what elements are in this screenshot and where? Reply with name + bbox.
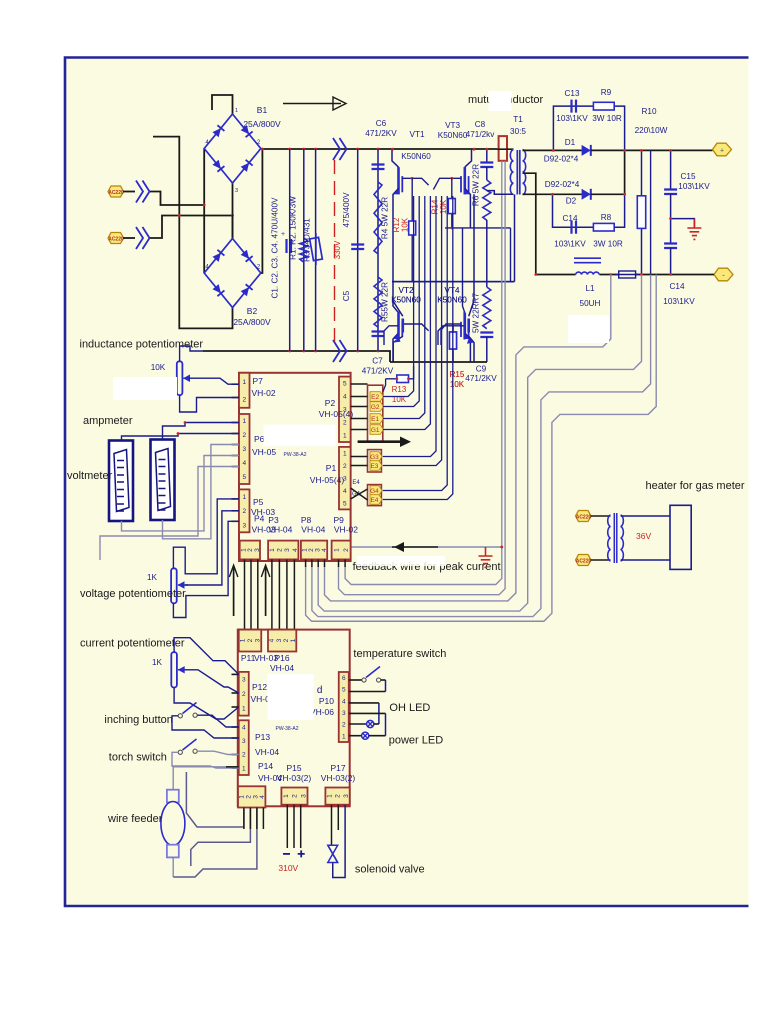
wire C5 column xyxy=(357,149,359,351)
svg-text:temperature switch: temperature switch xyxy=(353,648,446,660)
wire mid rail xyxy=(392,194,515,281)
connector P14 bottom xyxy=(238,786,265,807)
voltmeter display xyxy=(151,440,175,521)
wire secondary top xyxy=(523,149,582,151)
svg-text:103\1KV: 103\1KV xyxy=(663,297,695,306)
svg-text:d: d xyxy=(317,685,323,696)
white cover board2 xyxy=(268,674,314,720)
svg-text:K50N60: K50N60 xyxy=(401,152,431,161)
wire bottom rail left xyxy=(203,351,390,362)
connector P17 bottom xyxy=(325,788,349,805)
svg-text:30:5: 30:5 xyxy=(510,127,526,136)
wire VT1 collector xyxy=(392,149,399,167)
svg-text:220\10W: 220\10W xyxy=(635,126,668,135)
svg-text:3: 3 xyxy=(242,446,246,453)
svg-text:VH-04: VH-04 xyxy=(270,663,294,673)
transistor VT1 xyxy=(397,167,400,194)
svg-text:C5: C5 xyxy=(342,290,351,301)
pad group G4 E4 xyxy=(368,485,382,506)
wire VT3 gate xyxy=(433,178,461,189)
svg-text:ampmeter: ampmeter xyxy=(83,415,133,427)
svg-text:R4 5W 22R: R4 5W 22R xyxy=(381,197,390,239)
svg-text:E3: E3 xyxy=(370,463,378,470)
resistor R9 xyxy=(593,102,614,110)
svg-text:1: 1 xyxy=(242,418,246,425)
wire heater prim xyxy=(591,515,611,517)
wire sensor feedback loop A xyxy=(345,161,502,585)
svg-text:power LED: power LED xyxy=(389,735,443,747)
wire ac1 xyxy=(123,191,135,193)
heater box xyxy=(670,505,691,569)
svg-text:VH-03(2): VH-03(2) xyxy=(277,773,312,783)
wire P2 pin stubs xyxy=(351,383,368,385)
wire heater sec xyxy=(621,515,670,517)
wire sense column xyxy=(650,150,652,274)
connector P10 xyxy=(339,672,349,742)
svg-text:G4: G4 xyxy=(370,488,379,495)
heater transformer core xyxy=(614,513,617,563)
snubber loop C14 R8 xyxy=(553,194,625,227)
chevron top rail xyxy=(333,138,347,160)
wire R1R2 column xyxy=(303,149,305,351)
wire P14 pin stubs xyxy=(243,808,245,830)
resistor R6 xyxy=(486,167,488,287)
ampmeter display xyxy=(109,441,133,522)
wire VT3 collector xyxy=(465,149,472,167)
resistor R15 xyxy=(452,324,454,362)
wire feeder harness 2 xyxy=(191,808,251,866)
wire gate drive common xyxy=(445,228,511,282)
wire left pin stubs board1 xyxy=(232,383,240,385)
svg-text:C7: C7 xyxy=(372,357,383,366)
svg-text:2: 2 xyxy=(242,752,246,759)
svg-text:B2: B2 xyxy=(247,306,258,316)
wire ind pot top xyxy=(180,346,203,361)
svg-text:G1: G1 xyxy=(371,427,380,434)
capacitor C7 xyxy=(372,332,385,337)
svg-text:3: 3 xyxy=(235,188,238,194)
resistor R12 xyxy=(411,178,413,281)
svg-text:3: 3 xyxy=(284,548,291,552)
wire temp switch out xyxy=(381,679,386,681)
wire D1 out xyxy=(591,149,713,151)
wire VT3 emitter xyxy=(465,188,471,228)
wire P1 cross to G4 E4 xyxy=(351,488,368,500)
svg-text:VH-04: VH-04 xyxy=(301,525,325,535)
svg-text:4: 4 xyxy=(343,393,347,400)
svg-text:VH-04: VH-04 xyxy=(255,747,279,757)
svg-text:3: 3 xyxy=(242,522,246,529)
wire ac2 xyxy=(123,237,135,239)
svg-text:310V: 310V xyxy=(278,863,298,873)
svg-text:P6: P6 xyxy=(254,434,265,444)
wire VT4 collector xyxy=(463,228,465,313)
resistor R15 xyxy=(452,326,454,362)
wire left vertical bus xyxy=(153,137,233,329)
resistor R8 xyxy=(593,223,614,231)
wire gate-emitter bundle xyxy=(383,196,414,397)
svg-text:-: - xyxy=(722,271,725,280)
svg-text:current potentiometer: current potentiometer xyxy=(80,638,185,650)
wire VT4 gate xyxy=(441,324,461,345)
transformer T1 primary xyxy=(510,150,513,195)
svg-text:1K: 1K xyxy=(147,573,158,582)
resistor R13 xyxy=(386,366,414,379)
svg-text:1: 1 xyxy=(242,494,246,501)
snubber loop C13 R9 xyxy=(553,106,624,150)
svg-text:T1: T1 xyxy=(513,115,523,124)
wire P3 pins down xyxy=(271,559,273,629)
svg-text:B1: B1 xyxy=(257,105,268,115)
svg-text:C13: C13 xyxy=(564,89,579,98)
svg-text:2: 2 xyxy=(283,638,290,642)
wire VT2 collector xyxy=(393,301,403,317)
voltage potentiometer xyxy=(171,568,177,603)
shunt xyxy=(619,271,636,278)
wire sensor feedback loop B xyxy=(339,161,506,595)
svg-text:475/400V: 475/400V xyxy=(342,192,351,228)
wire VT4 emitter xyxy=(469,336,474,362)
svg-text:2: 2 xyxy=(277,548,284,552)
heater transformer secondary xyxy=(621,515,624,561)
bridge rectifier B2 xyxy=(204,239,261,308)
svg-text:2: 2 xyxy=(242,691,246,698)
svg-text:P16: P16 xyxy=(274,653,289,663)
svg-text:AC220: AC220 xyxy=(108,190,124,196)
svg-text:2: 2 xyxy=(335,794,342,798)
svg-text:10K: 10K xyxy=(151,363,166,372)
connector output minus xyxy=(714,268,733,281)
ground symbol (red) xyxy=(687,219,701,239)
wire feeder harness 1 xyxy=(186,772,244,827)
svg-text:1: 1 xyxy=(242,706,246,713)
svg-text:1: 1 xyxy=(240,638,247,642)
white cover near inductance pot xyxy=(113,377,177,400)
svg-text:10K: 10K xyxy=(401,217,410,232)
diode D1 xyxy=(582,145,591,156)
connector P15 bottom xyxy=(281,788,307,805)
svg-text:VH-02: VH-02 xyxy=(252,388,276,398)
svg-text:2: 2 xyxy=(343,463,347,470)
svg-text:1: 1 xyxy=(269,548,276,552)
wire C6 column xyxy=(377,149,379,351)
white cover feedback text xyxy=(357,556,445,566)
svg-text:E2: E2 xyxy=(371,394,379,401)
svg-text:D92-02*4: D92-02*4 xyxy=(544,155,579,164)
torch switch xyxy=(178,750,182,754)
wire vpot pin1 xyxy=(173,499,239,574)
svg-text:G2: G2 xyxy=(371,404,380,411)
svg-text:AC220: AC220 xyxy=(576,514,592,520)
wire VT1 emitter xyxy=(393,188,399,312)
connector AC220 input 1 xyxy=(108,186,124,197)
svg-text:inching button: inching button xyxy=(104,714,172,726)
red dashed 330V line xyxy=(334,160,336,348)
capacitor C13 xyxy=(572,100,577,113)
svg-text:VH-03(2): VH-03(2) xyxy=(321,773,356,783)
capacitor C14a xyxy=(572,221,577,234)
wire B1-B2 vertical xyxy=(232,183,234,239)
transformer T1 core xyxy=(517,150,520,195)
svg-text:D92-02*4: D92-02*4 xyxy=(545,180,580,189)
wire cpot bottom xyxy=(174,688,239,720)
svg-text:1: 1 xyxy=(283,794,290,798)
svg-text:3: 3 xyxy=(255,638,262,642)
wire E2 to R13 xyxy=(383,379,386,392)
capacitor C1-C4 xyxy=(287,239,292,253)
svg-text:P10: P10 xyxy=(319,696,334,706)
svg-text:VH-02: VH-02 xyxy=(334,525,358,535)
svg-text:3: 3 xyxy=(242,676,246,683)
svg-text:+: + xyxy=(281,231,285,238)
svg-text:4: 4 xyxy=(269,638,276,642)
svg-text:50UH: 50UH xyxy=(580,299,601,308)
wire inching left xyxy=(172,716,239,738)
svg-text:C14: C14 xyxy=(669,282,684,291)
arrow feedback left xyxy=(392,546,438,548)
control board 1 xyxy=(239,373,351,561)
white cover board1 xyxy=(264,425,336,447)
svg-text:D1: D1 xyxy=(565,138,576,147)
svg-text:4: 4 xyxy=(242,460,246,467)
svg-text:P5: P5 xyxy=(253,497,264,507)
transistor VT2 xyxy=(398,312,400,340)
connector output plus xyxy=(713,143,732,156)
svg-text:5: 5 xyxy=(343,500,347,507)
svg-text:voltage potentiometer: voltage potentiometer xyxy=(80,588,186,600)
bridge rectifier B1 xyxy=(204,114,261,183)
wire P15 pins xyxy=(286,805,288,848)
wire B1 ac vertical xyxy=(203,149,205,274)
svg-text:2: 2 xyxy=(242,508,246,515)
control board 2 xyxy=(238,630,350,807)
wire torch left xyxy=(172,752,239,768)
transformer T1 secondary xyxy=(523,150,526,195)
svg-text:C6: C6 xyxy=(376,119,387,128)
svg-text:10K: 10K xyxy=(450,380,465,389)
svg-text:R13: R13 xyxy=(392,385,407,394)
svg-text:2: 2 xyxy=(343,548,350,552)
resistor R7 xyxy=(483,287,491,329)
resistor R4 xyxy=(374,182,382,254)
wire P10 pin4 xyxy=(349,702,379,704)
svg-text:R3 34D/431: R3 34D/431 xyxy=(303,218,312,262)
arrow up 2 xyxy=(265,566,267,616)
schematic sheet background xyxy=(65,58,749,907)
svg-text:1: 1 xyxy=(334,548,341,552)
svg-text:C9: C9 xyxy=(476,365,487,374)
svg-text:P8: P8 xyxy=(301,515,312,525)
svg-text:103\1KV: 103\1KV xyxy=(554,240,586,249)
svg-text:P7: P7 xyxy=(253,376,264,386)
inductance potentiometer xyxy=(177,361,183,395)
wire cpot wiper xyxy=(188,670,239,693)
svg-text:3: 3 xyxy=(276,638,283,642)
transistor VT4 xyxy=(463,313,466,339)
wire VT2 emitter xyxy=(393,336,403,362)
svg-text:5: 5 xyxy=(343,380,347,387)
svg-text:R9: R9 xyxy=(601,88,612,97)
wire VT1 gate xyxy=(402,178,428,185)
wire meter wires gray xyxy=(163,445,240,539)
connector P12 xyxy=(239,672,249,716)
svg-text:VH-05: VH-05 xyxy=(252,447,276,457)
svg-text:4: 4 xyxy=(259,795,266,799)
wire mid rail xyxy=(392,281,515,283)
junction dots top rail xyxy=(261,148,264,151)
svg-text:4: 4 xyxy=(292,548,299,552)
wire C15 mid to ground xyxy=(671,219,695,227)
svg-text:103\1KV: 103\1KV xyxy=(678,182,710,191)
svg-text:2: 2 xyxy=(242,432,246,439)
wire feedback loop 1 xyxy=(325,275,611,601)
svg-text:1: 1 xyxy=(327,794,334,798)
svg-text:inductance potentiometer: inductance potentiometer xyxy=(80,339,204,351)
svg-text:VH-06: VH-06 xyxy=(310,707,334,717)
wire P1 pin stubs xyxy=(351,456,368,458)
wire torch right xyxy=(197,751,239,754)
connector P7 xyxy=(239,373,250,408)
wire feeder stack wire xyxy=(173,767,226,877)
inching button xyxy=(178,714,182,718)
label plus xyxy=(298,850,305,857)
label minus xyxy=(283,853,290,855)
svg-text:1: 1 xyxy=(343,450,347,457)
capacitor C15 xyxy=(670,150,672,189)
wire VT4 gate xyxy=(438,326,464,345)
svg-text:wire feeder: wire feeder xyxy=(107,813,163,825)
white cover L1 xyxy=(568,315,609,343)
wire meter1 top xyxy=(163,423,240,440)
wire P10 pin3 xyxy=(349,712,386,714)
svg-text:C8: C8 xyxy=(475,120,486,129)
svg-text:471/2kv: 471/2kv xyxy=(466,130,496,139)
wire P17 pin1 xyxy=(331,805,333,846)
wire meter2 top xyxy=(122,434,240,441)
svg-text:471/2KV: 471/2KV xyxy=(362,367,394,376)
svg-text:E4: E4 xyxy=(352,480,360,486)
svg-text:VH-05(4): VH-05(4) xyxy=(319,409,354,419)
svg-text:G3: G3 xyxy=(370,454,379,461)
svg-text:5W 22RR7: 5W 22RR7 xyxy=(472,293,481,333)
connector P16 xyxy=(268,630,296,652)
wire ind pot wiper xyxy=(189,378,239,384)
svg-text:6: 6 xyxy=(342,675,346,682)
svg-text:R8: R8 xyxy=(601,213,612,222)
svg-text:330V: 330V xyxy=(333,240,342,259)
svg-text:4: 4 xyxy=(321,548,328,552)
wire VT2 gate xyxy=(402,324,428,331)
svg-text:2: 2 xyxy=(292,794,299,798)
connector P11 xyxy=(239,630,262,652)
svg-text:K50N60: K50N60 xyxy=(391,296,421,305)
wire secondary bottom xyxy=(523,193,582,195)
pad group E2 G2 E1 G1 xyxy=(368,385,383,441)
connector P5 xyxy=(239,489,250,532)
wire ind pot bottom xyxy=(180,395,239,412)
svg-text:R6 5W 22R: R6 5W 22R xyxy=(472,164,481,206)
svg-text:R10: R10 xyxy=(641,107,656,116)
wire P8 P9 pin stubs xyxy=(305,559,307,567)
capacitor C6 xyxy=(372,165,385,170)
svg-text:R1. R2. 150K/3W: R1. R2. 150K/3W xyxy=(289,196,298,260)
wire feedback loop 4 xyxy=(306,275,657,622)
svg-text:103\1KV: 103\1KV xyxy=(556,114,588,123)
svg-text:3: 3 xyxy=(343,794,350,798)
svg-text:2: 2 xyxy=(247,638,254,642)
connector P6 xyxy=(239,414,250,484)
svg-text:P9: P9 xyxy=(334,515,345,525)
svg-text:3: 3 xyxy=(342,710,346,717)
connector P8 bottom xyxy=(301,541,327,560)
svg-text:AC220: AC220 xyxy=(108,236,124,242)
svg-text:P3: P3 xyxy=(268,515,279,525)
svg-text:P2: P2 xyxy=(325,398,336,408)
wire VT4 collector xyxy=(469,194,474,316)
svg-text:471/2KV: 471/2KV xyxy=(365,129,397,138)
wire P17 pin2 xyxy=(337,805,339,830)
arrow up 1 xyxy=(233,566,235,616)
resistor R10 xyxy=(641,150,643,274)
svg-text:+: + xyxy=(720,148,724,155)
wire primary return xyxy=(487,191,513,195)
svg-text:VT2: VT2 xyxy=(398,286,413,295)
svg-text:P4: P4 xyxy=(254,514,265,524)
sheet border xyxy=(65,58,749,907)
transistor VT3 xyxy=(463,167,466,194)
svg-text:L1: L1 xyxy=(585,284,595,293)
wire left pin stubs board2 xyxy=(232,673,239,675)
wire bridge + tie xyxy=(261,149,262,274)
svg-text:solenoid valve: solenoid valve xyxy=(355,864,425,876)
wire vpot wiper xyxy=(185,511,239,585)
svg-text:4: 4 xyxy=(242,724,246,731)
svg-text:E1: E1 xyxy=(371,416,379,423)
LED power xyxy=(349,735,362,737)
wire inching right xyxy=(197,715,239,727)
capacitor C5 xyxy=(351,245,364,250)
resistor R5 xyxy=(374,277,382,327)
connector P2 xyxy=(339,377,351,442)
chevron bottom rail xyxy=(333,340,347,362)
wire B1 top loop xyxy=(212,95,233,114)
wire ac2b xyxy=(150,216,233,239)
svg-text:PW-38-A2: PW-38-A2 xyxy=(284,452,307,458)
wire feedback to ground xyxy=(351,546,502,548)
svg-text:VT1: VT1 xyxy=(409,130,424,139)
svg-text:3: 3 xyxy=(254,548,261,552)
svg-text:P13: P13 xyxy=(255,732,270,742)
svg-text:3: 3 xyxy=(300,794,307,798)
svg-text:36V: 36V xyxy=(636,531,651,541)
svg-text:R55W 22R: R55W 22R xyxy=(381,282,390,322)
svg-text:K50N60: K50N60 xyxy=(438,131,468,140)
svg-text:1K: 1K xyxy=(152,658,163,667)
wire P17 pin3 xyxy=(333,805,345,878)
svg-text:2: 2 xyxy=(242,396,246,403)
capacitor C8 xyxy=(486,149,488,162)
wire feedback loop 2 xyxy=(318,275,641,612)
svg-text:4: 4 xyxy=(342,698,346,705)
connector chevron 1 xyxy=(136,181,150,203)
svg-text:AC220: AC220 xyxy=(576,558,592,564)
svg-text:1: 1 xyxy=(242,765,246,772)
wire P10 pin6 xyxy=(349,679,362,681)
connector P4 bottom xyxy=(240,541,260,560)
svg-text:3W 10R: 3W 10R xyxy=(592,114,622,123)
connector AC220 input 2 xyxy=(108,233,124,244)
resistor R1 R2 xyxy=(300,238,308,262)
